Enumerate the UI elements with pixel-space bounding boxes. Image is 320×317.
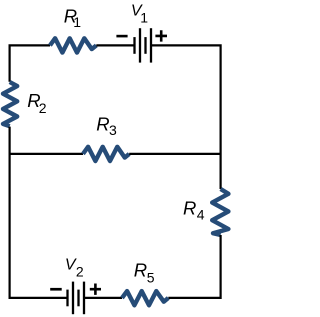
svg-text:3: 3 (109, 122, 117, 138)
wire between V2 and R5 (84, 297, 122, 299)
svg-text:2: 2 (76, 263, 84, 279)
wire top-right corner and upper-right segment (151, 45, 221, 189)
battery V2 tall plate (right, positive) (83, 282, 85, 315)
svg-text:R: R (134, 260, 147, 281)
wire between R1 and V1 (96, 44, 134, 46)
svg-text:1: 1 (73, 14, 81, 30)
battery V1 tall plate (right, positive) (150, 28, 152, 62)
svg-text:2: 2 (39, 100, 47, 116)
wire lower-left segment and bottom-left corner (10, 127, 68, 298)
wire top-left corner and upper-left segment (10, 45, 50, 81)
minus sign of V1 (116, 35, 127, 38)
resistor R2 (3, 82, 17, 126)
battery V1 short plate (inner) (144, 37, 146, 54)
battery V2 short plate (left, negative) (66, 290, 68, 307)
plus sign of V1 (155, 30, 167, 41)
wire middle-right segment (129, 153, 220, 155)
battery V1 short plate (left, negative) (133, 37, 135, 54)
wire lower-right segment and bottom-right corner (168, 235, 220, 298)
svg-text:R: R (183, 198, 196, 219)
resistor R5 (122, 291, 168, 305)
resistor R4 (212, 189, 228, 235)
resistor R3 (83, 147, 129, 161)
battery V2 short plate (inner) (77, 290, 79, 307)
svg-text:1: 1 (140, 9, 148, 25)
minus sign of V2 (50, 288, 62, 291)
battery V1 tall plate (139, 28, 141, 62)
plus sign of V2 (90, 284, 101, 295)
svg-text:5: 5 (147, 270, 155, 286)
wire middle-left segment (10, 153, 83, 155)
svg-text:R: R (96, 114, 109, 135)
resistor R1 (50, 38, 96, 52)
svg-text:4: 4 (197, 206, 205, 222)
battery V2 tall plate (72, 282, 74, 315)
